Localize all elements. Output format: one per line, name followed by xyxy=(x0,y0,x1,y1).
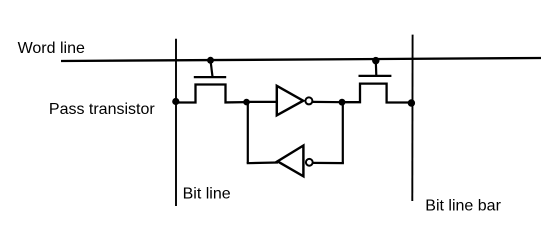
svg-text:Pass transistor: Pass transistor xyxy=(49,101,155,118)
svg-text:Bit line bar: Bit line bar xyxy=(425,197,501,214)
svg-text:Word line: Word line xyxy=(18,40,85,57)
svg-text:Bit line: Bit line xyxy=(183,186,231,203)
